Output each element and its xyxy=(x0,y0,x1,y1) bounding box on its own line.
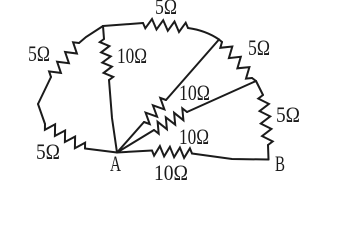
wire R1 to node T2 xyxy=(188,28,219,40)
wire R4 to node T3 xyxy=(252,78,256,81)
resistor R9 5ohm (lower-left) xyxy=(45,124,85,149)
wire A to R7 xyxy=(117,130,154,153)
svg-text:10Ω: 10Ω xyxy=(179,124,209,149)
svg-text:5Ω: 5Ω xyxy=(276,102,300,127)
wire A to R8 xyxy=(117,151,152,153)
svg-text:10Ω: 10Ω xyxy=(154,160,188,185)
wire R8 to node B xyxy=(192,154,269,160)
wire R6 to node T2 xyxy=(166,40,219,101)
svg-text:5Ω: 5Ω xyxy=(248,35,270,60)
wire L to R9 xyxy=(38,104,45,124)
wire R7 to node T3 xyxy=(187,81,256,112)
svg-text:10Ω: 10Ω xyxy=(179,80,210,105)
svg-text:A: A xyxy=(110,151,121,176)
svg-text:B: B xyxy=(275,151,285,176)
wire R2 to node L xyxy=(38,77,51,104)
resistor R8 10ohm (bottom) xyxy=(152,146,192,158)
resistor R7 10ohm (lower middle diagonal) xyxy=(154,108,187,133)
wire T1 to R2 xyxy=(79,26,103,43)
resistor R5 5ohm (right vertical) xyxy=(258,95,272,145)
wire T1 to R3 xyxy=(103,26,104,39)
resistor R6 10ohm (upper middle diagonal) xyxy=(144,98,166,124)
wire R9 to node A xyxy=(85,149,117,153)
wire node T1 to R1 xyxy=(103,23,143,26)
resistor R1 5ohm (top) xyxy=(143,19,188,32)
resistor R2 5ohm (upper-left) xyxy=(49,42,79,77)
resistor R4 5ohm (upper-right diagonal) xyxy=(220,42,252,79)
resistor R3 10ohm (vertical) xyxy=(100,39,113,80)
svg-text:5Ω: 5Ω xyxy=(36,139,60,164)
wire R3 to node A xyxy=(109,80,117,153)
wire R5 to node B xyxy=(267,145,270,160)
wire A to R6 xyxy=(117,122,144,153)
svg-text:5Ω: 5Ω xyxy=(28,41,50,66)
svg-text:5Ω: 5Ω xyxy=(155,0,177,19)
wire T2 to R4 xyxy=(219,40,222,43)
wire T3 to R5 xyxy=(256,81,263,95)
svg-text:10Ω: 10Ω xyxy=(117,43,147,68)
